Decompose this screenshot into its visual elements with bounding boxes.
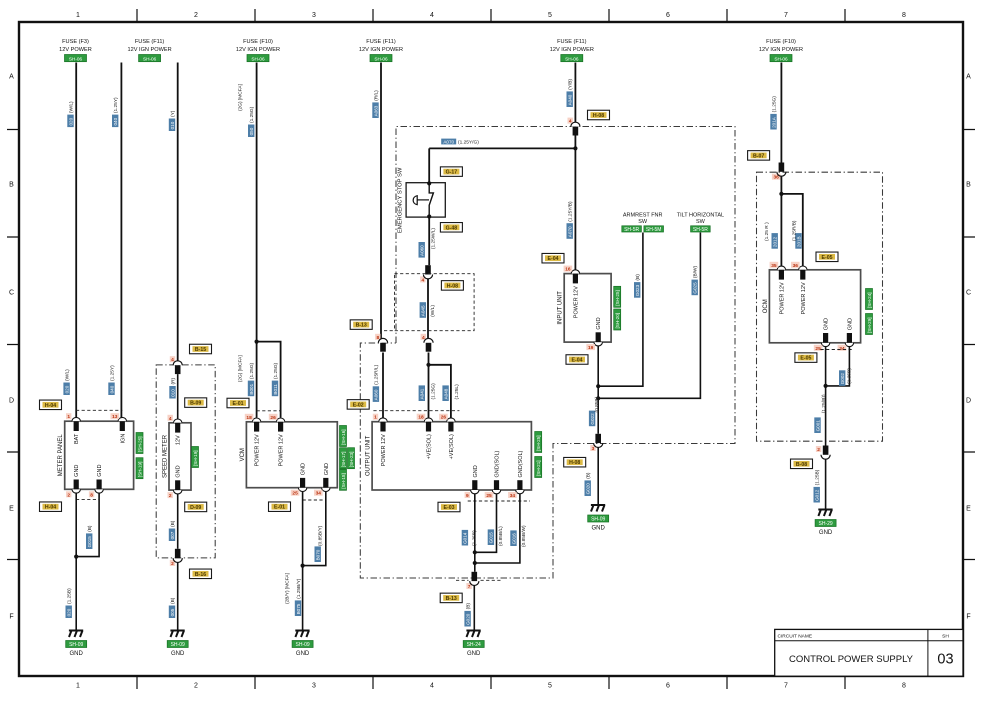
wire label G020 (B) bbox=[464, 611, 470, 627]
wire label G014 (1.25B) bbox=[462, 530, 468, 546]
svg-text:18: 18 bbox=[418, 415, 424, 421]
output unit pin 34 GND(SOL) bbox=[516, 490, 524, 494]
connector E-01 upper bbox=[227, 398, 249, 408]
svg-text:2: 2 bbox=[817, 447, 820, 453]
wire 020 fuse F3 to meter panel BAT bbox=[75, 63, 77, 418]
wire A070 down to e-stop switch bbox=[428, 148, 430, 183]
svg-text:4: 4 bbox=[430, 683, 434, 690]
ground input unit bbox=[591, 505, 605, 512]
wire label A041 (1.25G) bbox=[419, 385, 425, 401]
svg-text:(2G) [MCFA]: (2G) [MCFA] bbox=[238, 84, 244, 111]
wire label B001 (1.25G) bbox=[248, 381, 254, 397]
wire A060 switch to H-08 bbox=[428, 217, 430, 266]
label SH-20 input unit bbox=[614, 309, 621, 330]
svg-text:GND: GND bbox=[596, 317, 602, 329]
wire label A060 (1.25W/L) bbox=[419, 242, 425, 258]
svg-text:[SH-19]: [SH-19] bbox=[193, 450, 198, 466]
wire label 2012 (1.25R) bbox=[772, 233, 778, 249]
wire meter panel pin2 to ground bbox=[75, 493, 77, 631]
svg-text:(1.25B): (1.25B) bbox=[815, 469, 821, 485]
VCM pin 18 POWER 12V bbox=[252, 418, 260, 422]
junction meter panel gnd bbox=[74, 555, 78, 559]
svg-text:H-08: H-08 bbox=[447, 283, 458, 289]
svg-text:FUSE (F11): FUSE (F11) bbox=[366, 39, 396, 45]
svg-text:26: 26 bbox=[270, 415, 276, 421]
svg-text:8: 8 bbox=[90, 492, 93, 498]
wire label A045 (W/L) bbox=[420, 302, 426, 318]
connector H-08 col5 label bbox=[588, 110, 610, 120]
input unit bbox=[564, 274, 611, 343]
meter panel pin 8 GND bbox=[95, 489, 103, 493]
svg-text:[SH-17]: [SH-17] bbox=[341, 452, 346, 468]
svg-text:19: 19 bbox=[588, 345, 594, 351]
label SH-25 input unit bbox=[614, 286, 621, 307]
svg-text:A070: A070 bbox=[443, 139, 454, 144]
svg-text:TILT HORIZONTAL: TILT HORIZONTAL bbox=[677, 213, 724, 219]
svg-text:010: 010 bbox=[170, 389, 175, 397]
svg-text:13: 13 bbox=[112, 414, 118, 420]
svg-text:(1.25L): (1.25L) bbox=[454, 384, 460, 400]
svg-text:03: 03 bbox=[937, 652, 953, 668]
svg-text:H-08: H-08 bbox=[569, 460, 580, 466]
svg-text:SW: SW bbox=[696, 219, 706, 225]
output unit pin 26 +VE(SOL) bbox=[447, 418, 455, 422]
svg-text:G015: G015 bbox=[489, 532, 494, 544]
VCM unit bbox=[246, 422, 337, 488]
svg-text:G016: G016 bbox=[511, 533, 516, 545]
wire label 010 (R) bbox=[169, 386, 175, 399]
svg-text:(1.25G): (1.25G) bbox=[249, 362, 255, 379]
connector row B-13 bottom dashed bbox=[456, 579, 502, 581]
svg-text:3: 3 bbox=[592, 446, 595, 452]
svg-text:1: 1 bbox=[374, 415, 377, 421]
svg-text:B-07: B-07 bbox=[753, 153, 764, 159]
wire G021 to ground bbox=[597, 448, 599, 506]
label SH-5M armrest bbox=[644, 226, 664, 232]
svg-text:(W/L): (W/L) bbox=[68, 101, 74, 113]
svg-text:GND: GND bbox=[171, 651, 185, 657]
OCM pin 25 GND bbox=[821, 343, 829, 347]
svg-text:SH-06: SH-06 bbox=[251, 56, 265, 61]
output unit pin 9 GND bbox=[471, 490, 479, 494]
speed meter pin 2 GND bbox=[174, 490, 182, 494]
wire label 040 (1.25Y) bbox=[112, 115, 118, 128]
svg-text:(1.25Y): (1.25Y) bbox=[113, 97, 119, 113]
svg-text:CONTROL POWER SUPPLY: CONTROL POWER SUPPLY bbox=[789, 654, 914, 665]
emergency stop switch box bbox=[406, 183, 445, 217]
wire branch to VCM pin 26 bbox=[257, 342, 281, 418]
OCM pin 35 POWER 12V bbox=[777, 266, 785, 270]
svg-text:D-09: D-09 bbox=[190, 505, 201, 511]
connector B-13 bottom col4 bbox=[466, 583, 471, 589]
svg-text:6: 6 bbox=[666, 683, 670, 690]
svg-text:SH-06: SH-06 bbox=[565, 56, 579, 61]
svg-text:7: 7 bbox=[468, 584, 471, 590]
svg-text:A040: A040 bbox=[568, 94, 573, 105]
svg-text:[SH-25]: [SH-25] bbox=[137, 436, 142, 452]
svg-text:[SH-16]: [SH-16] bbox=[341, 429, 346, 445]
svg-text:E: E bbox=[9, 506, 14, 513]
ground speed meter bbox=[170, 631, 184, 638]
svg-text:G002: G002 bbox=[840, 373, 845, 385]
svg-text:FUSE (F11): FUSE (F11) bbox=[557, 39, 587, 45]
svg-text:POWER 12V: POWER 12V bbox=[255, 434, 261, 466]
input unit pin 16 POWER 12V bbox=[571, 270, 579, 274]
svg-text:A045: A045 bbox=[421, 305, 426, 316]
svg-text:GND: GND bbox=[467, 651, 481, 657]
title block bbox=[775, 629, 963, 676]
svg-text:G020: G020 bbox=[465, 613, 470, 625]
junction tilt bbox=[596, 396, 600, 400]
connector B-08 label bbox=[791, 459, 813, 469]
label SH-5R armrest bbox=[622, 226, 642, 232]
svg-text:E-01: E-01 bbox=[274, 505, 285, 511]
svg-text:(Y/B): (Y/B) bbox=[568, 79, 574, 90]
connector B-15 label bbox=[190, 344, 212, 354]
output unit pin 25 GND(SOL) bbox=[492, 490, 500, 494]
svg-text:34: 34 bbox=[510, 493, 516, 499]
svg-text:FUSE (F11): FUSE (F11) bbox=[135, 39, 165, 45]
svg-text:12V IGN POWER: 12V IGN POWER bbox=[236, 47, 280, 53]
dash-dot boundary control units (L-shape) bbox=[360, 127, 735, 579]
svg-text:[SH-20]: [SH-20] bbox=[615, 313, 620, 329]
connector B-09 label bbox=[185, 398, 207, 408]
ground label SH-09 col3 bbox=[292, 641, 313, 648]
label SH-19 speed meter bbox=[192, 447, 199, 468]
svg-text:5: 5 bbox=[548, 12, 552, 19]
wire H-08 col5 to input unit bbox=[574, 136, 576, 271]
wire label B070 (0.85B/Y) bbox=[315, 546, 321, 562]
VCM pin 26 POWER 12V bbox=[276, 418, 284, 422]
svg-text:2: 2 bbox=[194, 683, 198, 690]
input unit pin 19 GND bbox=[594, 342, 602, 346]
wire VCM pin25 to ground bbox=[302, 491, 304, 630]
junction gnd sol 2 bbox=[473, 561, 477, 565]
svg-text:(1.25 R ): (1.25 R ) bbox=[764, 222, 770, 241]
svg-text:SH-09: SH-09 bbox=[296, 642, 310, 648]
svg-text:4: 4 bbox=[430, 12, 434, 19]
svg-text:25: 25 bbox=[815, 346, 821, 352]
wire label A040 (Y/B) bbox=[567, 91, 573, 107]
svg-text:GND: GND bbox=[847, 318, 853, 330]
svg-text:INPUT UNIT: INPUT UNIT bbox=[558, 291, 564, 325]
svg-text:(1.25W/L): (1.25W/L) bbox=[431, 228, 437, 249]
svg-text:12V IGN POWER: 12V IGN POWER bbox=[759, 47, 803, 53]
svg-text:B001: B001 bbox=[249, 383, 254, 394]
svg-text:B-08: B-08 bbox=[796, 462, 807, 468]
svg-text:OCM: OCM bbox=[763, 299, 769, 313]
svg-text:F: F bbox=[966, 614, 970, 621]
VCM pin 25 GND bbox=[298, 488, 306, 492]
svg-text:040: 040 bbox=[109, 385, 114, 393]
svg-text:(1.25(B)): (1.25(B)) bbox=[821, 394, 827, 413]
wire meter panel pin8 gnd bbox=[76, 493, 99, 557]
svg-text:(1.25B): (1.25B) bbox=[67, 588, 73, 604]
svg-text:BAT: BAT bbox=[74, 433, 80, 444]
junction pin18-pin26 branch bbox=[426, 363, 430, 367]
switch terminal top bbox=[427, 181, 431, 185]
wire 201A fuse F10 down bbox=[780, 63, 782, 163]
svg-text:E-05: E-05 bbox=[800, 356, 811, 362]
svg-text:D: D bbox=[9, 398, 14, 405]
svg-text:25: 25 bbox=[486, 493, 492, 499]
svg-text:8: 8 bbox=[902, 12, 906, 19]
connector D-09 label bbox=[185, 502, 207, 512]
connector H-04 lower bbox=[40, 502, 62, 512]
junction col3 branch bbox=[255, 340, 259, 344]
junction VCM gnd bbox=[301, 564, 305, 568]
wire 040 fuse F11 to meter panel IGN bbox=[120, 63, 122, 418]
svg-text:G012: G012 bbox=[815, 489, 820, 501]
junction OCM gnd bbox=[824, 384, 828, 388]
svg-text:(1.25B): (1.25B) bbox=[847, 368, 853, 384]
svg-text:(B): (B) bbox=[170, 597, 176, 604]
wire output pin34 gnd bbox=[475, 494, 520, 563]
svg-text:GND(SOL): GND(SOL) bbox=[518, 450, 524, 477]
wire label 007 (B) bbox=[169, 529, 175, 542]
svg-text:IGN: IGN bbox=[120, 434, 126, 444]
speed meter pin 4 12V bbox=[174, 419, 182, 423]
connector H-08 col4 bbox=[420, 276, 425, 282]
svg-text:1: 1 bbox=[76, 12, 80, 19]
svg-text:G025: G025 bbox=[693, 282, 698, 294]
emergency stop switch contact bbox=[429, 183, 433, 216]
svg-text:12V IGN POWER: 12V IGN POWER bbox=[550, 47, 594, 53]
svg-text:E-02: E-02 bbox=[353, 402, 364, 408]
svg-text:SH-09: SH-09 bbox=[69, 642, 83, 648]
svg-text:(1.25G): (1.25G) bbox=[273, 362, 279, 379]
wire label 010 (Y) bbox=[169, 119, 175, 132]
svg-text:EMERGENCY STOP SW: EMERGENCY STOP SW bbox=[397, 167, 403, 233]
svg-text:G001: G001 bbox=[815, 420, 820, 432]
svg-text:SH-06: SH-06 bbox=[774, 56, 788, 61]
svg-text:(W/L): (W/L) bbox=[64, 369, 70, 381]
svg-text:+VE(SOL): +VE(SOL) bbox=[449, 434, 455, 459]
label SH-17 VCM bbox=[340, 448, 347, 469]
junction armrest bbox=[596, 384, 600, 388]
svg-text:METER PANEL: METER PANEL bbox=[58, 434, 64, 477]
wire A063 fuse F11 down to B-13 bbox=[380, 63, 382, 340]
wire A040 fuse F11 col5 down bbox=[574, 63, 576, 123]
svg-text:FUSE (F10): FUSE (F10) bbox=[243, 39, 273, 45]
svg-text:25: 25 bbox=[292, 491, 298, 497]
wire label 020 (W/L) bbox=[67, 115, 73, 128]
svg-text:(1.25G): (1.25G) bbox=[771, 96, 777, 113]
svg-text:(B): (B) bbox=[465, 603, 471, 610]
connector E-05 lower label bbox=[795, 353, 817, 363]
svg-text:18: 18 bbox=[246, 415, 252, 421]
svg-text:3: 3 bbox=[312, 12, 316, 19]
svg-text:020: 020 bbox=[68, 117, 73, 125]
connector H-08 col4 label bbox=[441, 281, 463, 291]
svg-text:[SH-21]: [SH-21] bbox=[536, 460, 541, 476]
connector E-04 upper label bbox=[542, 253, 564, 263]
svg-text:B-16: B-16 bbox=[195, 572, 206, 578]
svg-text:SH-5R: SH-5R bbox=[624, 227, 639, 233]
svg-text:G-48: G-48 bbox=[446, 225, 458, 231]
OCM pin 34 GND bbox=[845, 343, 853, 347]
wire output pin9 to ground bbox=[474, 494, 476, 572]
svg-text:[SH-25]: [SH-25] bbox=[615, 290, 620, 306]
svg-text:(1.25Y/B): (1.25Y/B) bbox=[568, 201, 574, 222]
connector row H-04 lower dashed bbox=[76, 498, 99, 500]
ground OCM bbox=[818, 510, 832, 517]
svg-text:(Y): (Y) bbox=[170, 110, 176, 117]
svg-text:GND: GND bbox=[324, 463, 330, 475]
svg-text:B-13: B-13 bbox=[446, 596, 457, 602]
wire A045 H-08 to B-13 bbox=[427, 279, 429, 339]
connector E-03 label bbox=[438, 502, 460, 512]
svg-text:[SH-23]: [SH-23] bbox=[349, 452, 354, 468]
svg-text:G-17: G-17 bbox=[446, 170, 458, 176]
connector B-13 bottom label bbox=[440, 593, 462, 603]
svg-text:(B): (B) bbox=[586, 472, 592, 479]
svg-text:6: 6 bbox=[666, 12, 670, 19]
svg-text:SH-5M: SH-5M bbox=[646, 227, 662, 233]
wire G025 tilt to input gnd bbox=[598, 233, 700, 399]
svg-text:[SH-18]: [SH-18] bbox=[341, 473, 346, 489]
svg-text:A041: A041 bbox=[420, 388, 425, 399]
output unit pin 18 +VE(SOL) bbox=[424, 418, 432, 422]
svg-text:12V IGN POWER: 12V IGN POWER bbox=[359, 47, 403, 53]
wire output pin25 gnd bbox=[475, 494, 497, 553]
label SH-24 OCM bbox=[866, 289, 873, 310]
connector row E-01 lower dashed bbox=[303, 499, 326, 501]
connector B-16 bbox=[170, 560, 175, 566]
svg-text:A063: A063 bbox=[373, 105, 378, 116]
svg-text:POWER 12V: POWER 12V bbox=[381, 434, 387, 466]
svg-text:H-04: H-04 bbox=[45, 403, 56, 409]
label SH-23 VCM bbox=[348, 448, 355, 469]
connector E-02 label bbox=[347, 400, 369, 410]
connector B-07 bbox=[772, 174, 781, 180]
svg-text:(1.25G): (1.25G) bbox=[430, 383, 436, 400]
svg-text:B011: B011 bbox=[273, 384, 278, 395]
wire label B075 (1.25B/Y) bbox=[295, 600, 301, 616]
wire input unit GND down bbox=[597, 346, 599, 434]
wire VCM pin34 gnd bbox=[303, 491, 326, 565]
svg-text:12V IGN POWER: 12V IGN POWER bbox=[128, 47, 172, 53]
svg-text:G022: G022 bbox=[590, 413, 595, 425]
svg-text:SH-24: SH-24 bbox=[467, 642, 481, 648]
svg-text:SH-06: SH-06 bbox=[69, 56, 83, 61]
wire A060 B-13 to output unit pin1 bbox=[382, 353, 384, 419]
svg-text:7: 7 bbox=[784, 12, 788, 19]
wire label B011 (1.25G) bbox=[272, 381, 278, 397]
wire B-13 to output unit pin18 bbox=[428, 353, 430, 419]
ground output unit bbox=[466, 631, 480, 638]
svg-text:35: 35 bbox=[771, 263, 777, 269]
wire B-15 to speed meter 12V bbox=[177, 374, 179, 419]
svg-text:GND: GND bbox=[176, 465, 182, 477]
wire G023 armrest to input gnd bbox=[598, 233, 643, 387]
svg-text:POWER 12V: POWER 12V bbox=[573, 286, 579, 318]
connector row E-02 dashed bbox=[373, 410, 459, 412]
svg-text:E: E bbox=[966, 506, 971, 513]
wire label G012 (1.25B) bbox=[814, 487, 820, 503]
wire label A063 (R/L) bbox=[372, 102, 378, 118]
ground label SH-09 col1 bbox=[66, 641, 87, 648]
svg-text:VCM: VCM bbox=[240, 448, 246, 461]
wire label G002 (1.2B) bbox=[839, 370, 845, 386]
svg-text:1: 1 bbox=[76, 683, 80, 690]
svg-text:ARMREST FNR: ARMREST FNR bbox=[623, 213, 663, 219]
wire label G022 (0.85B) bbox=[589, 411, 595, 427]
svg-text:26: 26 bbox=[441, 415, 447, 421]
svg-text:E-04: E-04 bbox=[572, 358, 583, 364]
svg-text:GND: GND bbox=[473, 465, 479, 477]
wire B-16 to ground bbox=[177, 563, 179, 631]
ground label SH-09 col5 bbox=[588, 515, 609, 522]
svg-text:2012: 2012 bbox=[773, 236, 778, 247]
svg-text:(0.85B/Y): (0.85B/Y) bbox=[318, 525, 324, 546]
svg-text:(1.25Y/G): (1.25Y/G) bbox=[458, 140, 479, 146]
wire A070 horizontal bbox=[429, 147, 575, 149]
svg-text:GND: GND bbox=[592, 526, 606, 532]
label SH-5R tilt bbox=[691, 226, 711, 232]
svg-text:GND: GND bbox=[74, 465, 80, 477]
wire G012 to ground bbox=[825, 459, 827, 510]
wire speed meter GND down bbox=[177, 494, 179, 549]
svg-text:C: C bbox=[966, 290, 971, 297]
svg-text:020: 020 bbox=[67, 608, 72, 616]
svg-text:SH-5R: SH-5R bbox=[693, 227, 708, 233]
svg-text:SH-09: SH-09 bbox=[171, 642, 185, 648]
wire label G021 (B) bbox=[585, 480, 591, 496]
OCM unit bbox=[769, 270, 860, 343]
svg-text:2: 2 bbox=[171, 561, 174, 567]
connector H-04 upper bbox=[40, 400, 62, 410]
wire label A048 (1.25L) bbox=[442, 385, 448, 401]
connector H-28 label bbox=[564, 457, 586, 467]
svg-text:040: 040 bbox=[113, 117, 118, 125]
switch terminal bottom bbox=[427, 214, 431, 218]
wire label 201A (1.25G) bbox=[770, 114, 776, 130]
junction gnd sol 1 bbox=[473, 550, 477, 554]
dash-dot boundary OCM unit bbox=[757, 172, 883, 441]
svg-text:F: F bbox=[9, 614, 13, 621]
svg-text:POWER 12V: POWER 12V bbox=[279, 434, 285, 466]
svg-text:E-01: E-01 bbox=[233, 401, 244, 407]
svg-text:B-13: B-13 bbox=[356, 323, 367, 329]
svg-text:A060: A060 bbox=[374, 389, 379, 400]
svg-text:POWER 12V: POWER 12V bbox=[801, 282, 807, 314]
ground meter panel bbox=[69, 631, 83, 638]
connector B-13 left label bbox=[350, 320, 372, 330]
connector row H-04 dashed bbox=[76, 409, 122, 411]
wire OCM pin25 to B-08 bbox=[825, 346, 827, 445]
wire label 020 (1.25B) bbox=[66, 606, 72, 619]
svg-text:A: A bbox=[9, 74, 14, 81]
svg-text:(1.25R/B): (1.25R/B) bbox=[791, 220, 797, 241]
wire label 201B (1.25R/B) bbox=[795, 233, 801, 249]
svg-text:[SH-19]: [SH-19] bbox=[137, 462, 142, 478]
wire label 050 (1.25G) bbox=[248, 125, 254, 138]
wire label 005 (B) bbox=[169, 606, 175, 619]
svg-text:34: 34 bbox=[839, 346, 845, 352]
svg-text:GND: GND bbox=[819, 530, 833, 536]
svg-text:G015: G015 bbox=[87, 536, 92, 548]
wire label G016 (0.85B/W) bbox=[510, 530, 516, 546]
meter panel unit bbox=[65, 421, 134, 489]
svg-text:SPEED METER: SPEED METER bbox=[163, 434, 169, 478]
connector row E-03 dashed bbox=[468, 500, 530, 502]
svg-text:OUTPUT UNIT: OUTPUT UNIT bbox=[366, 435, 372, 476]
wire OCM pin34 gnd bbox=[826, 346, 850, 386]
junction A070 to col5 bbox=[573, 146, 577, 150]
wire label 040 (1.25Y) lower bbox=[108, 383, 114, 396]
svg-text:34: 34 bbox=[316, 491, 322, 497]
